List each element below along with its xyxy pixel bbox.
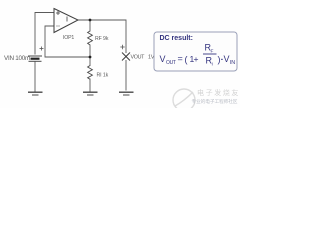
wire op-amp output to VOUT corner xyxy=(78,20,126,53)
svg-text:1+: 1+ xyxy=(190,54,199,64)
svg-text:IOP1: IOP1 xyxy=(63,35,74,41)
svg-text:): ) xyxy=(218,55,221,65)
svg-text:专业的电子工程师社区: 专业的电子工程师社区 xyxy=(192,98,238,105)
probe plus mark xyxy=(120,45,124,49)
svg-text:I: I xyxy=(212,62,213,68)
svg-text:RI 1k: RI 1k xyxy=(97,73,109,79)
svg-text:IN: IN xyxy=(230,60,235,66)
wire VIN top to op-amp plus input xyxy=(35,13,54,55)
wire battery bottom to ground xyxy=(34,62,36,91)
node A junction dot at output xyxy=(89,19,92,22)
svg-text:V: V xyxy=(224,54,230,64)
node B junction dot at feedback xyxy=(89,56,92,59)
svg-text:(: ( xyxy=(185,55,188,65)
resistor RF 9k xyxy=(88,31,93,45)
wire RF bottom xyxy=(89,45,91,57)
svg-text:DC result:: DC result: xyxy=(160,35,193,42)
battery plus sign xyxy=(40,47,44,51)
inner stroke 1 xyxy=(66,17,68,22)
svg-text:=: = xyxy=(178,54,183,64)
ground under VOUT xyxy=(119,92,134,95)
battery source VIN xyxy=(28,56,42,61)
wire R1 bottom xyxy=(89,79,91,91)
DC result box xyxy=(154,32,237,71)
svg-text:OUT: OUT xyxy=(166,60,176,66)
svg-text:VIN 100m: VIN 100m xyxy=(4,55,30,62)
formula fraction bar xyxy=(203,53,217,55)
ground under battery xyxy=(28,92,43,95)
svg-text:VOUT: VOUT xyxy=(131,55,146,61)
resistor RI 1k xyxy=(88,66,93,80)
probe X marker VOUT xyxy=(122,53,130,61)
svg-text:电子发烧友: 电子发烧友 xyxy=(197,88,240,97)
op-amp IOP1 xyxy=(54,9,78,42)
svg-text:V: V xyxy=(160,54,166,64)
plus input mark xyxy=(56,12,60,14)
wire feedback from minus input down to node B xyxy=(45,26,90,57)
watermark logo circle xyxy=(173,89,195,111)
formula multiply dot xyxy=(221,58,223,60)
svg-text:RF 9k: RF 9k xyxy=(95,36,109,42)
ground under RI xyxy=(83,92,98,95)
formula VOUT = (1+ RF/RI)·VIN xyxy=(160,43,236,68)
wire VOUT probe down to ground xyxy=(125,61,127,91)
minus input mark xyxy=(56,25,60,27)
wire R1 top xyxy=(89,57,91,66)
wire RF top xyxy=(89,20,91,31)
